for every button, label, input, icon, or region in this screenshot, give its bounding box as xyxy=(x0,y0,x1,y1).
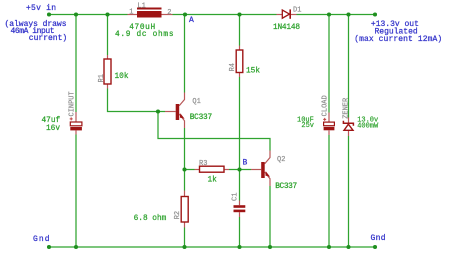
svg-text:ZENER: ZENER xyxy=(343,97,351,119)
svg-text:Q1: Q1 xyxy=(192,98,200,106)
svg-text:B: B xyxy=(243,159,248,168)
svg-text:2: 2 xyxy=(167,9,171,17)
svg-text:D1: D1 xyxy=(293,6,301,14)
svg-text:BC337: BC337 xyxy=(275,183,297,191)
svg-text:(max current 12mA): (max current 12mA) xyxy=(354,35,442,44)
svg-text:Gnd: Gnd xyxy=(371,234,386,243)
svg-text:Q2: Q2 xyxy=(277,156,285,164)
svg-text:L1: L1 xyxy=(137,2,145,10)
svg-text:CINPUT: CINPUT xyxy=(69,91,77,116)
svg-text:R3: R3 xyxy=(199,160,207,168)
svg-text:+5v in: +5v in xyxy=(26,4,56,13)
svg-text:R2: R2 xyxy=(174,211,182,219)
svg-text:4.9 dc ohms: 4.9 dc ohms xyxy=(115,31,174,39)
svg-text:1: 1 xyxy=(129,8,133,16)
svg-text:1k: 1k xyxy=(208,176,218,184)
svg-text:47uf: 47uf xyxy=(42,117,61,125)
svg-text:25v: 25v xyxy=(301,122,314,130)
svg-text:R4: R4 xyxy=(229,63,237,71)
svg-text:BC337: BC337 xyxy=(190,114,213,122)
svg-text:current): current) xyxy=(29,34,67,43)
svg-text:10k: 10k xyxy=(115,73,129,81)
svg-text:CLOAD: CLOAD xyxy=(322,95,330,116)
svg-text:6.8 ohm: 6.8 ohm xyxy=(134,215,167,223)
svg-text:15k: 15k xyxy=(246,67,260,75)
svg-text:Gnd: Gnd xyxy=(33,235,50,244)
svg-text:1N4148: 1N4148 xyxy=(273,24,300,32)
svg-text:R1: R1 xyxy=(98,74,106,82)
svg-text:16v: 16v xyxy=(46,125,60,133)
svg-text:A: A xyxy=(189,16,194,25)
svg-text:400mW: 400mW xyxy=(357,122,379,130)
svg-text:C1: C1 xyxy=(231,193,239,201)
